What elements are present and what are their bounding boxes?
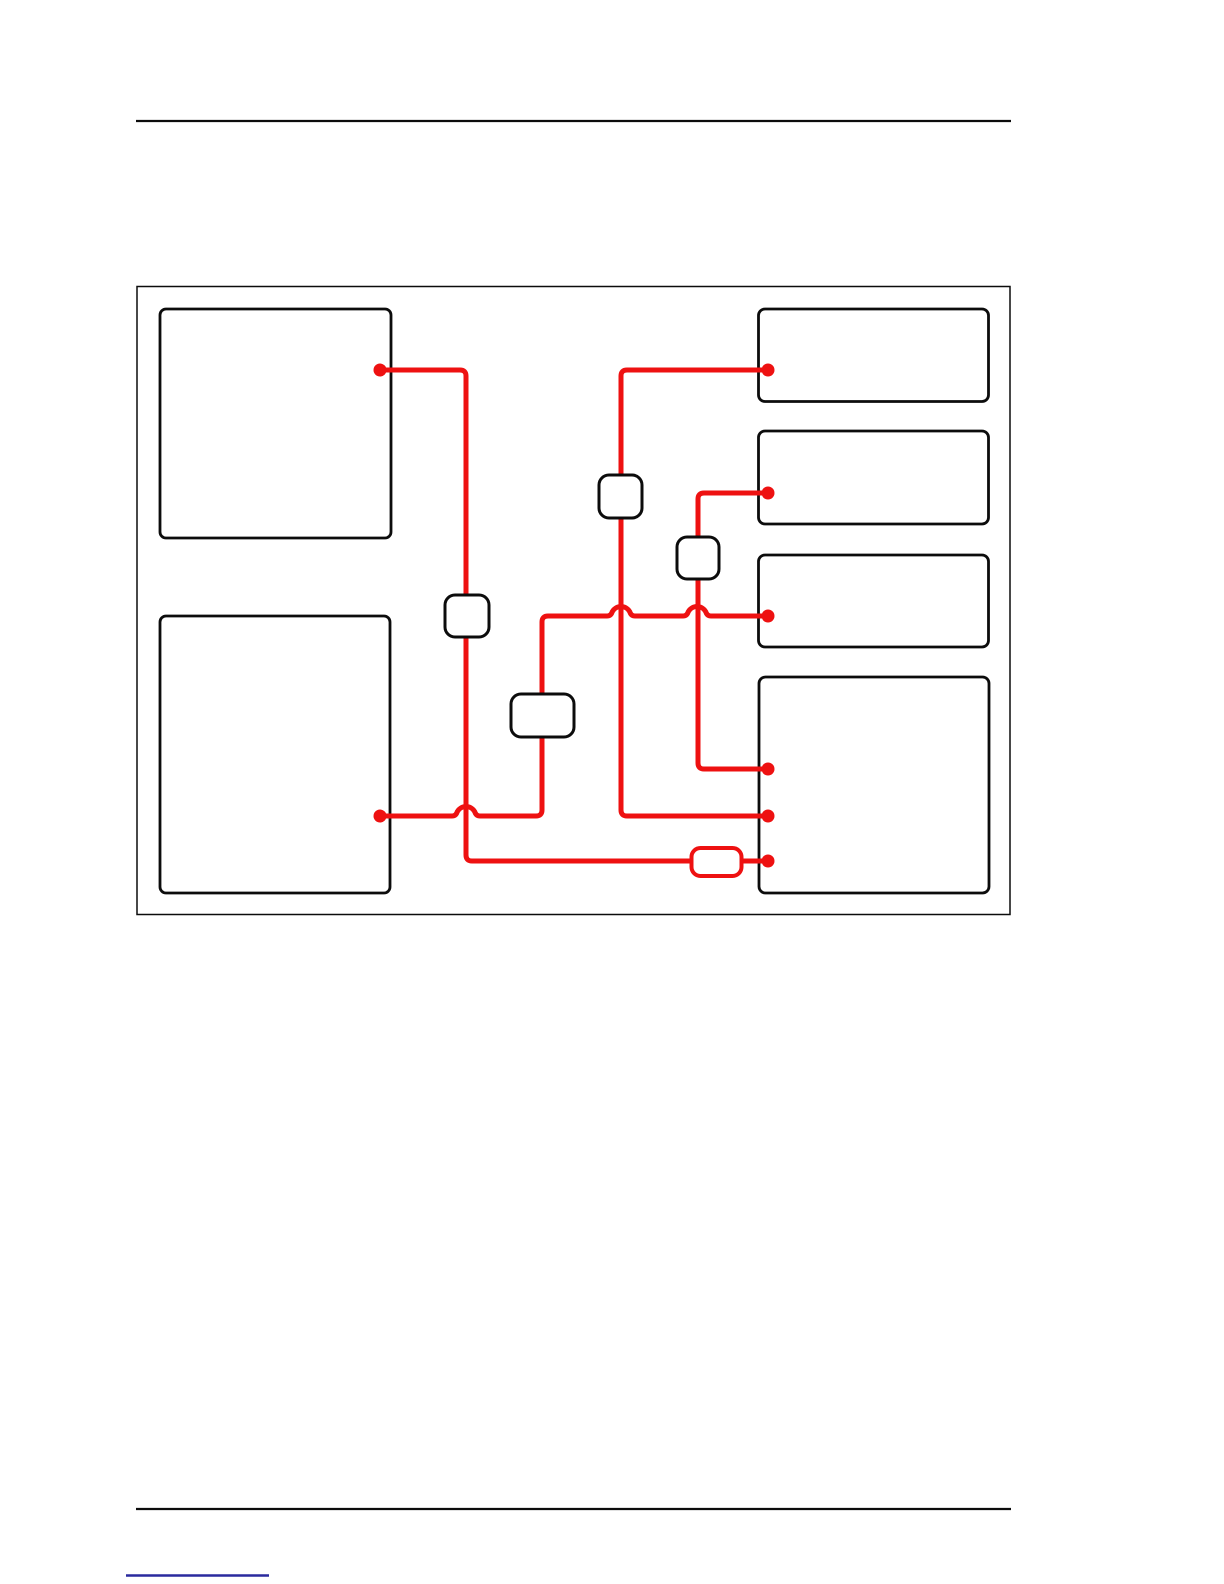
wire W1: top-left unit to bottom-right unit (bottom port) — [380, 370, 768, 861]
inline connector C4 on W4 — [677, 537, 719, 579]
node dot: right box 3 port — [762, 610, 775, 623]
wire W3: top-right box to bottom-right unit (middle port) — [621, 370, 768, 816]
node dot: right box 2 port — [762, 487, 775, 500]
node dot: top-left unit port — [374, 364, 387, 377]
node dot: right box 1 port — [762, 364, 775, 377]
inline connector C5 (red) on W1 — [692, 848, 742, 876]
box: right 2 — [759, 431, 989, 524]
node dot: bottom-right unit top port — [762, 763, 775, 776]
wire W2: bottom-left unit to right box 3, with hops at x=466, x=621, x=697 — [380, 607, 768, 816]
header rule — [136, 120, 1011, 122]
footer rule — [136, 1508, 1011, 1510]
inline connector C1 on W1 — [445, 595, 489, 637]
node dot: bottom-right unit middle port — [762, 810, 775, 823]
footer hyperlink underline — [126, 1574, 269, 1576]
box: bottom-right unit — [759, 677, 989, 893]
box: bottom-left unit — [160, 616, 390, 893]
node dot: bottom-left unit port — [374, 810, 387, 823]
diagram outer frame — [137, 287, 1010, 915]
box: top-left unit — [160, 309, 391, 538]
wire W4: right box 2 to bottom-right unit (top port) — [698, 493, 768, 769]
inline connector C3 on W3 — [599, 475, 642, 518]
box: right 1 — [759, 309, 989, 402]
node dot: bottom-right unit bottom port — [762, 855, 775, 868]
inline connector C2 on W2 — [511, 694, 574, 737]
box: right 3 — [759, 555, 989, 647]
